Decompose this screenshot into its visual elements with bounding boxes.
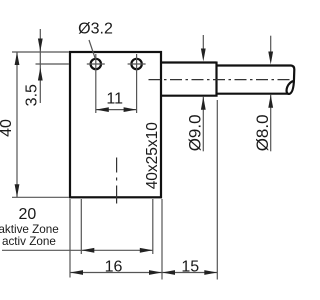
dimension 3.5 lower arrow (up) (38, 68, 43, 81)
dimension 11 arrow right (124, 107, 137, 112)
svg-text:15: 15 (181, 259, 199, 276)
extension line bottom edge (left) (12, 196, 69, 198)
extension line hole H2 vertical (136, 74, 138, 113)
hole H1 (left Ø3.2) (91, 59, 101, 69)
svg-text:40: 40 (0, 119, 15, 137)
dimension Ø8 upper arrow (270, 36, 272, 52)
body outline (40x25x10 block) (70, 52, 161, 197)
dimension 20 arrow right (140, 248, 153, 253)
extension line top edge (left) (12, 51, 69, 53)
svg-text:activ Zone: activ Zone (2, 235, 56, 248)
dimension 16 arrow right (149, 270, 162, 275)
dimension 20 arrow left (81, 248, 94, 253)
svg-text:Ø3.2: Ø3.2 (78, 21, 113, 38)
dimension Ø9 lower arrow (202, 97, 204, 152)
svg-text:Ø9.0: Ø9.0 (186, 114, 205, 151)
extension line sleeve step below (216, 100, 218, 280)
svg-text:16: 16 (105, 259, 123, 276)
dimension Ø9 upper arrow (202, 35, 204, 49)
extension line hole axis (left) (36, 63, 69, 65)
extension line active zone right (152, 199, 154, 254)
dimension 11 arrow left (96, 107, 109, 112)
dimension 15 arrow left (162, 270, 175, 275)
dimension Ø8 lower arrow (270, 95, 272, 152)
dimension 11 line (96, 109, 137, 111)
svg-text:20: 20 (19, 206, 37, 223)
dimension 20 leader and line (2, 249, 153, 251)
cable Ø8 outline with end loop (218, 66, 295, 94)
dimension 16 line (70, 272, 162, 274)
centerline active face vertical (116, 158, 118, 204)
dimension 3.5 upper arrow (down) (39, 29, 41, 103)
extension line body right below (161, 199, 163, 280)
leader line Ø3.2 to hole H1 (89, 40, 95, 58)
hole H2 center cross (128, 54, 146, 74)
dimension 15 arrow right (204, 270, 217, 275)
hole H1 center cross (87, 54, 105, 74)
extension line body left below (69, 199, 71, 278)
dimension 40 arrow down (15, 184, 20, 197)
svg-text:11: 11 (106, 91, 123, 108)
dimension 15 line (162, 272, 217, 274)
svg-text:3.5: 3.5 (24, 84, 41, 106)
dimension 40 arrow up (15, 52, 20, 65)
hole H2 (right Ø3.2) (131, 59, 141, 69)
dimension 16 arrow left (70, 270, 83, 275)
dimension 40 line (16, 52, 18, 197)
svg-text:40x25x10: 40x25x10 (144, 122, 161, 190)
extension line hole H1 vertical (95, 74, 97, 113)
svg-text:Ø8.0: Ø8.0 (253, 114, 272, 151)
centerline cable axis (149, 79, 294, 81)
extension line active zone left (80, 199, 82, 254)
sleeve Ø9 outline (162, 62, 217, 97)
